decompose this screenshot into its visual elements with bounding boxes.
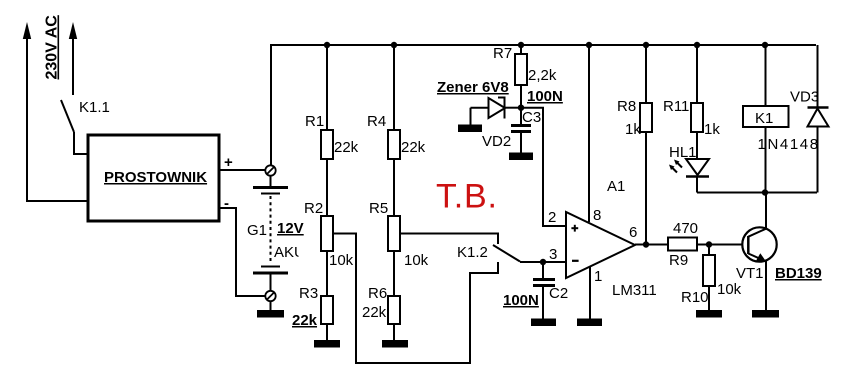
- switch K1.1: [61, 99, 110, 154]
- LED HL1: [669, 144, 709, 193]
- ground R3: [314, 340, 340, 348]
- svg-text:K1.1: K1.1: [79, 99, 110, 116]
- battery G1: [247, 165, 307, 301]
- svg-text:10k: 10k: [717, 281, 742, 298]
- wire R5 tap to K1.2 upper contact: [400, 234, 498, 245]
- svg-text:10k: 10k: [329, 252, 354, 269]
- ground R6: [382, 340, 408, 348]
- svg-text:1k: 1k: [625, 121, 641, 138]
- wire pin 8: [588, 45, 590, 222]
- svg-text:1N4148: 1N4148: [758, 136, 820, 153]
- ground C3: [509, 153, 533, 161]
- node dot R7 top: [518, 42, 524, 48]
- node dot pin8 rail: [586, 42, 592, 48]
- svg-text:100N: 100N: [503, 292, 539, 309]
- svg-text:R8: R8: [617, 98, 636, 115]
- resistor R1: [305, 45, 359, 159]
- svg-text:22k: 22k: [292, 312, 318, 329]
- ground R10: [696, 310, 722, 318]
- ground C2: [531, 319, 556, 327]
- wire top rail: [271, 45, 816, 165]
- svg-text:12V: 12V: [277, 220, 304, 237]
- svg-text:22k: 22k: [362, 304, 387, 321]
- svg-text:K1: K1: [755, 110, 773, 127]
- svg-text:6: 6: [629, 224, 637, 241]
- node dot K1 rail: [762, 42, 768, 48]
- wire lower rail: [697, 192, 817, 194]
- svg-text:LM311: LM311: [612, 282, 657, 299]
- svg-text:22k: 22k: [334, 139, 359, 156]
- svg-text:2,2k: 2,2k: [528, 67, 557, 84]
- resistor R11: [663, 45, 720, 159]
- capacitor C2: [503, 262, 568, 319]
- svg-text:22k: 22k: [401, 139, 426, 156]
- resistor R4: [367, 45, 426, 159]
- node dot R8 rail: [643, 42, 649, 48]
- node dot R10 top: [706, 241, 712, 247]
- switch K1.2: [457, 244, 520, 262]
- wire R2 tap to K1.2 lower contact: [333, 234, 498, 364]
- svg-text:+: +: [224, 154, 233, 171]
- svg-text:1k: 1k: [704, 121, 720, 138]
- wire pin 3: [520, 261, 566, 263]
- svg-text:2: 2: [548, 209, 556, 226]
- wire left mains line: [23, 22, 88, 201]
- resistor R8: [617, 45, 652, 244]
- resistor R2: [304, 159, 354, 269]
- resistor R3: [292, 251, 333, 341]
- zener diode VD2: [471, 98, 520, 151]
- svg-text:1: 1: [594, 268, 602, 285]
- wire rectifier minus output: [219, 208, 266, 296]
- svg-text:R4: R4: [367, 113, 386, 130]
- ground pin 1: [577, 319, 602, 327]
- svg-text:470: 470: [673, 220, 698, 237]
- svg-text:-: -: [224, 195, 229, 212]
- rectifier box PROSTOWNIK: [88, 135, 219, 221]
- node dot R1 top: [324, 42, 330, 48]
- relay K1: [743, 45, 789, 193]
- node dot pin 3: [540, 259, 546, 265]
- svg-text:R1: R1: [305, 113, 324, 130]
- node dot R4 top: [391, 42, 397, 48]
- wire zener junction to pin 2: [521, 108, 566, 226]
- node dot R11 rail: [694, 42, 700, 48]
- svg-text:230V AC: 230V AC: [44, 15, 61, 80]
- resistor R6: [362, 251, 400, 341]
- svg-text:C3: C3: [522, 109, 541, 126]
- svg-text:PROSTOWNIK: PROSTOWNIK: [104, 169, 207, 186]
- ground battery: [257, 301, 284, 318]
- svg-text:BD139: BD139: [775, 265, 822, 282]
- op-amp U1 LM311: [548, 178, 657, 299]
- wire rectifier plus output: [219, 169, 266, 171]
- ground VD2: [458, 125, 482, 133]
- svg-text:3: 3: [549, 246, 557, 263]
- svg-text:C2: C2: [549, 285, 568, 302]
- wire output pin 6: [635, 244, 668, 246]
- svg-text:R6: R6: [368, 285, 387, 302]
- ground VT1 emitter: [752, 310, 779, 318]
- svg-text:Zener 6V8: Zener 6V8: [437, 79, 509, 96]
- node dot lower rail: [762, 189, 768, 195]
- wire right mains line: [69, 22, 77, 95]
- svg-text:10k: 10k: [404, 252, 429, 269]
- svg-text:VT1: VT1: [736, 265, 764, 282]
- svg-text:R10: R10: [681, 289, 709, 306]
- capacitor C3: [511, 88, 563, 153]
- resistor R5: [369, 159, 429, 269]
- svg-text:R3: R3: [299, 285, 318, 302]
- svg-text:R9: R9: [669, 252, 688, 269]
- node dot output: [643, 241, 649, 247]
- svg-text:VD2: VD2: [482, 133, 511, 150]
- svg-text:R2: R2: [304, 200, 323, 217]
- svg-text:R11: R11: [663, 98, 689, 115]
- node dot zener junction: [518, 105, 524, 111]
- transistor VT1: [736, 193, 822, 312]
- resistor R10: [681, 245, 742, 312]
- svg-text:VD3: VD3: [790, 89, 819, 106]
- svg-text:A1: A1: [607, 178, 625, 195]
- svg-text:HL1: HL1: [669, 144, 697, 161]
- svg-text:G1: G1: [247, 222, 267, 239]
- wire pin 1 to ground: [589, 266, 591, 319]
- svg-text:T.B.: T.B.: [436, 178, 498, 216]
- svg-text:R5: R5: [369, 200, 388, 217]
- svg-text:R7: R7: [493, 45, 512, 62]
- svg-text:100N: 100N: [527, 88, 563, 105]
- resistor R7: [493, 45, 557, 108]
- diode VD3: [758, 45, 829, 193]
- resistor R9: [668, 220, 748, 269]
- svg-text:K1.2: K1.2: [457, 244, 488, 261]
- svg-text:8: 8: [593, 207, 601, 224]
